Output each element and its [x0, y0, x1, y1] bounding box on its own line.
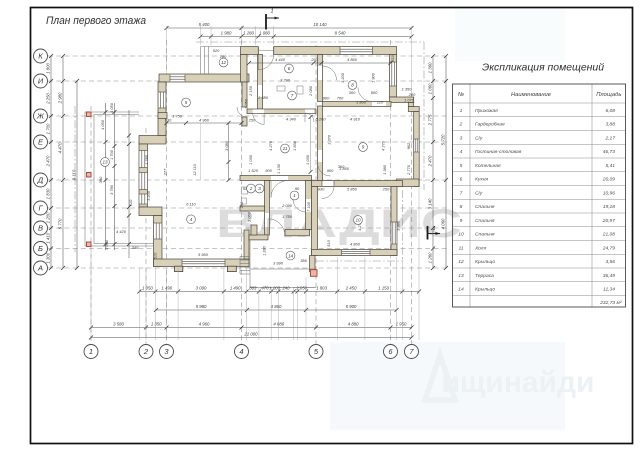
- watermark tint bottom-right: [330, 342, 565, 430]
- pillar footing left: [175, 266, 183, 271]
- axis circle 7: [405, 345, 419, 359]
- svg-text:1 830: 1 830: [46, 188, 51, 199]
- column K1 (red): [87, 112, 92, 117]
- svg-text:Ж: Ж: [36, 112, 45, 121]
- wall porch14 se corner: [310, 256, 316, 272]
- svg-text:520: 520: [213, 48, 220, 53]
- svg-text:Крыльцо: Крыльцо: [475, 287, 495, 293]
- svg-text:7: 7: [291, 93, 294, 98]
- svg-text:13: 13: [458, 273, 464, 279]
- svg-text:С/у: С/у: [475, 135, 483, 141]
- svg-text:Б: Б: [38, 244, 43, 253]
- column K2 (red): [87, 173, 92, 178]
- room number 10: [354, 216, 363, 225]
- svg-text:9: 9: [362, 145, 365, 150]
- svg-text:План первого этажа: План первого этажа: [46, 15, 146, 27]
- svg-text:4 910: 4 910: [350, 117, 361, 122]
- svg-text:2 770: 2 770: [406, 164, 411, 176]
- door arc hall: [271, 181, 288, 198]
- svg-text:20,09: 20,09: [602, 177, 616, 183]
- svg-text:12 110: 12 110: [192, 163, 197, 175]
- svg-text:250: 250: [382, 187, 390, 192]
- axis circle В: [34, 221, 48, 235]
- svg-text:Гардеробная: Гардеробная: [475, 122, 505, 128]
- svg-text:2 150: 2 150: [248, 85, 253, 97]
- window in left lower wall: [154, 223, 162, 239]
- svg-text:5: 5: [185, 100, 188, 105]
- bay window strip left: [139, 144, 148, 207]
- svg-text:4 860: 4 860: [350, 242, 361, 247]
- svg-text:Холл: Холл: [474, 245, 487, 251]
- fixture su3 wc: [242, 187, 248, 194]
- svg-text:700: 700: [337, 96, 344, 101]
- room number 9: [359, 143, 368, 152]
- svg-text:Кухня: Кухня: [475, 177, 488, 183]
- svg-text:4 060: 4 060: [441, 218, 446, 229]
- svg-text:470: 470: [261, 286, 269, 291]
- svg-text:3 000: 3 000: [196, 286, 207, 291]
- pillar footing right: [227, 266, 236, 271]
- roof overhang right: [423, 42, 425, 190]
- svg-text:11,34: 11,34: [603, 287, 615, 293]
- dim line left outer: [76, 81, 78, 268]
- fixture su7 sink: [277, 86, 285, 91]
- svg-text:9 110: 9 110: [72, 169, 77, 180]
- svg-text:2 090: 2 090: [281, 203, 293, 208]
- axis circle Е: [34, 135, 48, 149]
- axis line В: [48, 227, 447, 229]
- svg-text:2 060: 2 060: [247, 211, 252, 223]
- wall stub room5 south: [158, 113, 167, 119]
- svg-text:277: 277: [163, 168, 168, 176]
- door arc room9: [318, 163, 331, 176]
- svg-text:3 200: 3 200: [146, 190, 151, 201]
- wall west room9: [318, 106, 323, 181]
- room number 14: [286, 251, 295, 260]
- axis circle И: [34, 74, 48, 88]
- dim line living vertical: [228, 123, 230, 180]
- dim line terrace b: [114, 103, 116, 250]
- svg-text:1 380: 1 380: [396, 220, 401, 231]
- terrace top edge: [85, 111, 139, 113]
- svg-text:10 140: 10 140: [313, 22, 327, 27]
- axis line И: [48, 80, 447, 82]
- svg-text:1 490: 1 490: [161, 286, 172, 291]
- svg-text:Крыльцо: Крыльцо: [475, 259, 495, 265]
- wall top main right: [274, 47, 397, 55]
- svg-text:386: 386: [300, 258, 307, 263]
- svg-text:10: 10: [458, 232, 464, 238]
- axis line 2: [145, 128, 147, 344]
- svg-text:№: №: [458, 92, 464, 98]
- wall left of room 5: [158, 82, 166, 136]
- axis line Ж: [48, 115, 447, 117]
- wall hall north (prihozhaya): [240, 176, 312, 181]
- svg-text:1 280: 1 280: [262, 245, 267, 256]
- svg-text:1 785: 1 785: [144, 154, 149, 165]
- axis circle Б: [34, 242, 48, 256]
- svg-text:1 700: 1 700: [109, 149, 114, 160]
- dim line bottom 1: [139, 291, 419, 293]
- terrace west edge: [84, 112, 86, 246]
- svg-text:962: 962: [406, 142, 411, 149]
- room number 11: [281, 144, 290, 153]
- svg-text:12: 12: [221, 60, 227, 65]
- svg-text:Спальня: Спальня: [475, 232, 495, 238]
- dim line terrace c: [128, 110, 130, 258]
- svg-text:1 750: 1 750: [172, 114, 183, 119]
- svg-text:4: 4: [239, 347, 243, 356]
- svg-text:2: 2: [459, 122, 463, 128]
- svg-text:1 350: 1 350: [402, 87, 413, 92]
- table grid: [453, 84, 626, 307]
- wall corner porch: [241, 47, 259, 55]
- column K3 (red): [87, 242, 92, 247]
- dim line right inner: [432, 56, 434, 268]
- svg-text:1 050: 1 050: [142, 286, 153, 291]
- svg-text:8: 8: [460, 204, 463, 210]
- svg-text:510: 510: [153, 252, 158, 259]
- axis line К: [48, 55, 447, 57]
- svg-text:3 990: 3 990: [273, 261, 284, 266]
- svg-text:9: 9: [460, 218, 463, 224]
- axis circle 5: [309, 345, 323, 359]
- svg-text:2 470: 2 470: [428, 155, 433, 167]
- door arc room10: [322, 187, 334, 199]
- svg-text:3 050: 3 050: [244, 98, 249, 109]
- svg-text:300: 300: [265, 168, 272, 173]
- svg-text:36,49: 36,49: [603, 273, 616, 279]
- svg-text:232,73 м²: 232,73 м²: [599, 300, 622, 306]
- svg-text:800: 800: [371, 90, 378, 95]
- svg-text:4 960: 4 960: [199, 322, 210, 327]
- axis line 5: [315, 45, 317, 344]
- wall bay upper step: [139, 136, 166, 145]
- window in bottom wall: [182, 260, 225, 267]
- dim line bottom 2: [156, 309, 397, 311]
- svg-text:Терраса: Терраса: [475, 273, 494, 279]
- wall east outer: [414, 112, 420, 187]
- dim line right outer: [445, 56, 447, 268]
- wall top room10: [312, 181, 403, 187]
- svg-text:3 200: 3 200: [340, 72, 345, 83]
- svg-text:3,88: 3,88: [605, 122, 615, 128]
- svg-text:2 775: 2 775: [428, 114, 433, 126]
- svg-text:250: 250: [248, 118, 256, 123]
- door arc entry: [258, 55, 273, 70]
- window in room5 top wall: [170, 75, 185, 82]
- window east room10: [391, 222, 396, 244]
- wall east jog: [408, 103, 413, 107]
- door arc kitchen west: [323, 66, 337, 80]
- svg-text:300: 300: [349, 90, 356, 95]
- wall porch14 jog: [251, 225, 257, 235]
- axis line А: [48, 267, 447, 269]
- dim line hall vertical: [310, 117, 312, 172]
- window south room10: [342, 250, 371, 255]
- svg-text:1: 1: [460, 108, 463, 114]
- room number 5: [182, 98, 191, 107]
- wall kitchen/room9 divider: [323, 102, 392, 107]
- room number 2: [247, 184, 256, 193]
- wall west room10: [312, 187, 318, 256]
- svg-text:1: 1: [293, 193, 296, 198]
- svg-text:1 700: 1 700: [46, 123, 51, 134]
- roof overhang bottom: [316, 260, 403, 262]
- room number 8: [348, 81, 357, 90]
- wall tambour east: [258, 55, 263, 110]
- svg-text:510: 510: [390, 54, 395, 61]
- axis circle 4: [235, 345, 249, 359]
- svg-text:Котельная: Котельная: [475, 163, 501, 169]
- svg-text:6,08: 6,08: [605, 108, 615, 114]
- svg-text:1 860: 1 860: [356, 100, 367, 105]
- svg-text:1 950: 1 950: [396, 322, 407, 327]
- svg-text:1 410: 1 410: [46, 232, 51, 243]
- dim line terrace a: [105, 103, 107, 250]
- axis circle К: [34, 49, 48, 63]
- door arc tambour: [237, 107, 247, 117]
- svg-text:1 830: 1 830: [292, 140, 297, 151]
- roof overhang top: [196, 41, 424, 43]
- svg-text:2 450: 2 450: [345, 286, 357, 291]
- svg-text:6: 6: [288, 66, 291, 71]
- wall prihozhaya east: [306, 181, 312, 230]
- svg-text:Площадь: Площадь: [596, 92, 621, 98]
- svg-text:1 370: 1 370: [327, 134, 332, 145]
- svg-text:1 030: 1 030: [305, 154, 310, 165]
- svg-text:2: 2: [249, 186, 253, 191]
- axis circle 2: [139, 345, 153, 359]
- svg-text:240: 240: [281, 286, 290, 291]
- dim line living top: [167, 122, 242, 124]
- svg-text:ищинайди: ищинайди: [442, 366, 595, 399]
- roof overhang right lower: [402, 190, 404, 261]
- wall bay lower step: [139, 207, 162, 216]
- svg-text:14: 14: [288, 253, 294, 258]
- svg-text:12: 12: [458, 259, 464, 265]
- svg-text:1 380: 1 380: [382, 164, 387, 175]
- svg-text:24,79: 24,79: [602, 245, 616, 251]
- svg-text:4 340: 4 340: [286, 117, 297, 122]
- svg-text:4 420: 4 420: [116, 229, 127, 234]
- svg-text:3 580: 3 580: [113, 322, 124, 327]
- svg-text:510: 510: [128, 199, 133, 206]
- wall su7 south: [247, 109, 316, 114]
- room number 3: [255, 184, 264, 193]
- svg-text:390: 390: [98, 176, 103, 183]
- axis line 3: [166, 40, 168, 344]
- wall south room10: [312, 250, 398, 256]
- svg-text:900: 900: [327, 168, 334, 173]
- svg-text:2 080: 2 080: [308, 85, 313, 97]
- svg-text:4 860: 4 860: [347, 57, 358, 62]
- wall south of room9 step: [397, 179, 420, 187]
- axis circle Д: [34, 173, 48, 187]
- axis circle Ж: [34, 109, 48, 123]
- wall left lower: [154, 216, 163, 267]
- dim line kitchen interior: [249, 62, 391, 64]
- svg-text:280: 280: [408, 92, 416, 97]
- wall su2/3 divider: [240, 206, 265, 211]
- svg-text:3 850: 3 850: [339, 166, 350, 171]
- fixture su7 wc: [297, 86, 303, 94]
- svg-text:2: 2: [143, 347, 149, 356]
- svg-text:8 540: 8 540: [335, 31, 346, 36]
- svg-text:4 270: 4 270: [268, 140, 273, 151]
- wall bottom main: [154, 259, 250, 267]
- svg-text:4 440: 4 440: [275, 57, 286, 62]
- room number 1: [290, 191, 299, 200]
- room number 13: [101, 158, 110, 167]
- porch12 west edge: [200, 47, 202, 75]
- svg-text:5 850: 5 850: [347, 187, 358, 192]
- door arc kitchen: [358, 88, 372, 102]
- svg-text:530: 530: [165, 118, 172, 123]
- axis circle 1: [84, 345, 98, 359]
- svg-text:4 960: 4 960: [199, 118, 210, 123]
- axis circle 3: [160, 345, 174, 359]
- wall hall south-west jamb: [244, 230, 249, 259]
- svg-text:5 770: 5 770: [58, 218, 63, 229]
- porch14 slab edge: [249, 240, 251, 288]
- svg-text:1 260: 1 260: [428, 252, 433, 263]
- watermark bottom right logo: [425, 355, 455, 400]
- svg-text:1 060: 1 060: [428, 83, 433, 94]
- svg-text:2 250: 2 250: [46, 93, 51, 105]
- axis circle 6: [384, 345, 398, 359]
- svg-text:930: 930: [318, 187, 325, 192]
- svg-text:Спальня: Спальня: [475, 218, 495, 224]
- svg-text:5 200: 5 200: [316, 117, 327, 122]
- svg-text:4 050: 4 050: [100, 119, 105, 130]
- axis line Г: [48, 207, 447, 209]
- svg-text:3: 3: [258, 186, 261, 191]
- axis circle Г: [34, 201, 48, 215]
- svg-text:1 980: 1 980: [221, 31, 232, 36]
- svg-text:803: 803: [249, 286, 257, 291]
- svg-text:3 140: 3 140: [428, 198, 433, 209]
- svg-text:3 080: 3 080: [224, 140, 229, 151]
- watermark tint top-right: [455, 9, 565, 61]
- door arc su7 right: [305, 113, 314, 122]
- svg-text:1 360: 1 360: [428, 62, 433, 73]
- svg-text:340: 340: [132, 245, 139, 250]
- svg-text:10,96: 10,96: [603, 190, 616, 196]
- door arc su7 left: [253, 113, 264, 124]
- wall vertical axis4 tambour: [242, 82, 247, 107]
- axis circle А: [34, 261, 48, 275]
- svg-text:1 750: 1 750: [282, 214, 293, 219]
- svg-text:К: К: [38, 52, 43, 61]
- svg-text:46,73: 46,73: [603, 149, 616, 155]
- svg-text:3: 3: [460, 135, 463, 141]
- svg-text:510: 510: [326, 239, 331, 246]
- svg-text:Наименование: Наименование: [511, 92, 552, 98]
- wall east kitchen: [390, 55, 397, 98]
- svg-text:4: 4: [190, 217, 193, 222]
- room number 12: [219, 58, 228, 67]
- window kitchen top: [340, 47, 373, 54]
- svg-text:Спальня: Спальня: [475, 204, 495, 210]
- svg-text:1 490: 1 490: [230, 286, 241, 291]
- svg-text:20,97: 20,97: [602, 218, 616, 224]
- svg-text:21,08: 21,08: [602, 232, 616, 238]
- door gap room10 top: [322, 181, 334, 186]
- axis line 6: [390, 40, 392, 344]
- svg-text:7 100: 7 100: [306, 201, 311, 212]
- svg-text:3 860: 3 860: [271, 304, 282, 309]
- svg-text:1 200: 1 200: [46, 212, 51, 223]
- svg-text:1 130: 1 130: [276, 163, 281, 174]
- svg-text:14: 14: [458, 287, 464, 293]
- svg-text:3,56: 3,56: [605, 259, 615, 265]
- svg-text:С/у: С/у: [475, 190, 483, 196]
- svg-text:4 050: 4 050: [109, 102, 114, 113]
- roof overhang left: [74, 106, 76, 252]
- svg-text:11: 11: [458, 245, 463, 251]
- svg-text:250: 250: [310, 57, 318, 62]
- svg-text:1 520: 1 520: [248, 168, 259, 173]
- svg-text:1 803: 1 803: [316, 286, 327, 291]
- wall prihozhaya west: [265, 181, 270, 236]
- window in room5 left wall: [159, 92, 166, 108]
- svg-text:3 990: 3 990: [104, 239, 109, 250]
- svg-text:В: В: [38, 224, 43, 233]
- svg-text:А: А: [37, 264, 43, 273]
- window east outer: [414, 139, 419, 152]
- wall top of room 5: [159, 74, 249, 82]
- svg-text:И: И: [38, 77, 44, 86]
- svg-text:1 900: 1 900: [371, 72, 376, 83]
- svg-text:1 350: 1 350: [151, 322, 162, 327]
- svg-text:7: 7: [460, 190, 463, 196]
- wall east room10: [391, 187, 397, 256]
- svg-text:1 150: 1 150: [378, 286, 389, 291]
- svg-text:1 030: 1 030: [248, 154, 253, 165]
- svg-text:1 800: 1 800: [46, 63, 51, 74]
- wall porch14 north right: [285, 230, 310, 236]
- axis line Д: [48, 179, 447, 181]
- svg-text:2,17: 2,17: [604, 135, 615, 141]
- svg-text:6 110: 6 110: [186, 202, 196, 207]
- svg-text:120: 120: [377, 100, 384, 105]
- svg-text:4: 4: [460, 149, 463, 155]
- section flag 1 top: [265, 14, 267, 30]
- svg-text:2 470: 2 470: [46, 155, 51, 167]
- axis line Е: [48, 141, 447, 143]
- svg-text:2 580: 2 580: [257, 95, 269, 100]
- svg-text:3 790: 3 790: [109, 184, 114, 195]
- svg-text:1 080: 1 080: [259, 31, 270, 36]
- dim line top A: [167, 27, 412, 29]
- section flag 1 bottom: [427, 226, 429, 240]
- wall porch14 north left: [249, 235, 268, 240]
- wall west kitchen: [318, 55, 323, 102]
- porch14 west stair: [240, 256, 250, 258]
- svg-text:1: 1: [270, 9, 273, 15]
- axis line 1: [90, 106, 92, 344]
- svg-text:5 960: 5 960: [198, 252, 209, 257]
- svg-text:Экспликация помещений: Экспликация помещений: [482, 63, 604, 74]
- roof overhang bottom porch: [250, 287, 316, 289]
- svg-text:1: 1: [89, 347, 93, 356]
- svg-text:5 980: 5 980: [196, 304, 207, 309]
- room number 7: [288, 91, 297, 100]
- svg-text:5 720: 5 720: [441, 134, 446, 145]
- dim line bottom 3: [91, 327, 412, 329]
- svg-text:4 470: 4 470: [58, 142, 63, 153]
